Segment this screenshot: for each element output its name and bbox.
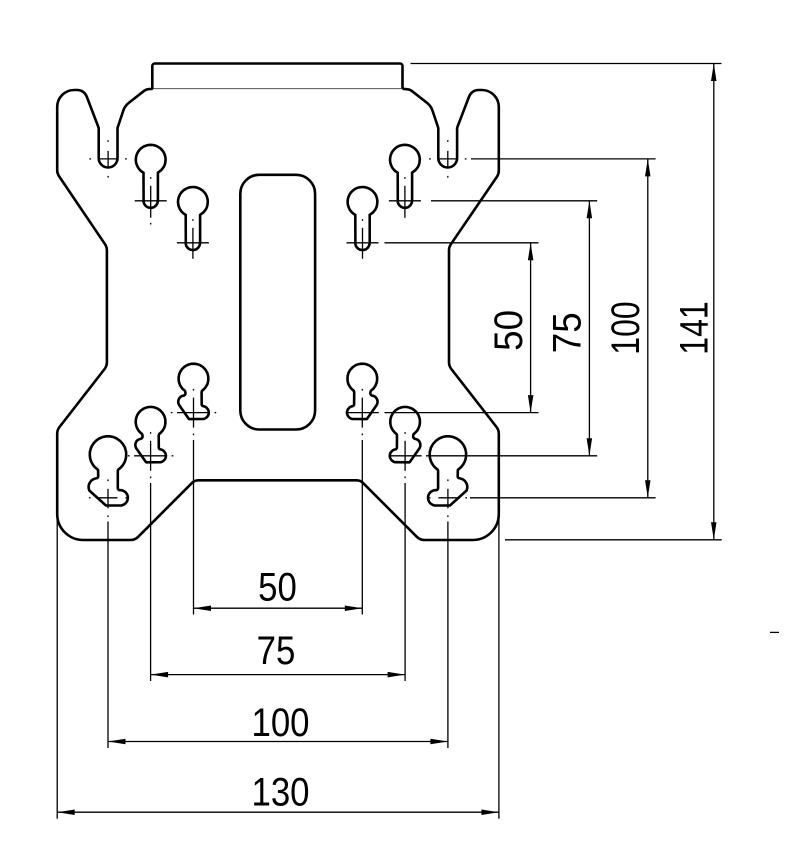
extension line v141-top [411,63,722,65]
centerline cross big-right foot [429,479,467,508]
pawn slot big-left [89,436,128,505]
dimension 130 bottom [57,811,499,813]
pawn slot mid-left [135,407,166,462]
extension line v50-top [385,242,539,244]
dimension 50 right [530,243,532,413]
centerline cross A-left slot end [135,177,167,224]
centerline cross left notch [89,140,126,177]
extension line 50-left [193,434,195,436]
svg-text:100: 100 [251,700,309,745]
centerline cross C-left foot [171,389,216,428]
svg-text:50: 50 [258,564,297,609]
extension line 100-right [447,515,449,517]
dimension 100 bottom [108,741,448,743]
centerline cross big-left foot [89,479,127,508]
extension line v100-top [471,158,656,160]
centerline cross A-right slot end [389,177,421,218]
pawn slot C-left [178,364,209,419]
dimension 75 bottom [151,674,406,676]
keyhole slot A-left [136,145,166,208]
extension line v50-bottom [385,412,539,414]
extension line 50-right [361,434,363,436]
extension line 130-right [498,517,500,819]
svg-text:100: 100 [603,301,648,354]
pawn slot mid-right [390,407,421,462]
stray tick mark [770,631,779,633]
keyhole slot B-right [348,187,378,250]
dimension 100 right [647,159,649,498]
extension line v100-bottom [470,497,656,499]
extension line 130-left [56,517,58,819]
svg-text:75: 75 [257,628,296,673]
centerline cross mid-right foot [389,432,422,471]
extension line 75-right [404,477,406,479]
pawn slot C-right [347,364,378,419]
centerline cross mid-left foot [128,432,173,471]
extension line 75-left [150,477,152,479]
dimension 50 bottom [194,607,363,609]
keyhole slot B-left [178,187,208,250]
extension line v75-top [431,200,597,202]
dimension 141 right [713,64,715,540]
extension line v75-bottom [426,455,597,457]
tab tangent line [154,88,402,90]
extension line v141-bottom [505,539,722,541]
central slot [240,175,315,430]
keyhole slot A-right [390,145,420,208]
centerline cross B-right slot end [347,219,379,259]
svg-text:130: 130 [251,769,309,814]
centerline cross right notch [429,140,466,177]
centerline cross C-right foot [346,389,379,428]
plate outline [57,64,499,541]
centerline cross B-left slot end [177,219,209,259]
svg-text:75: 75 [545,312,590,353]
extension line 100-left [107,515,109,517]
svg-text:50: 50 [487,310,532,351]
svg-text:141: 141 [671,301,716,354]
pawn slot big-right [428,436,467,505]
dimension 75 right [588,201,590,456]
